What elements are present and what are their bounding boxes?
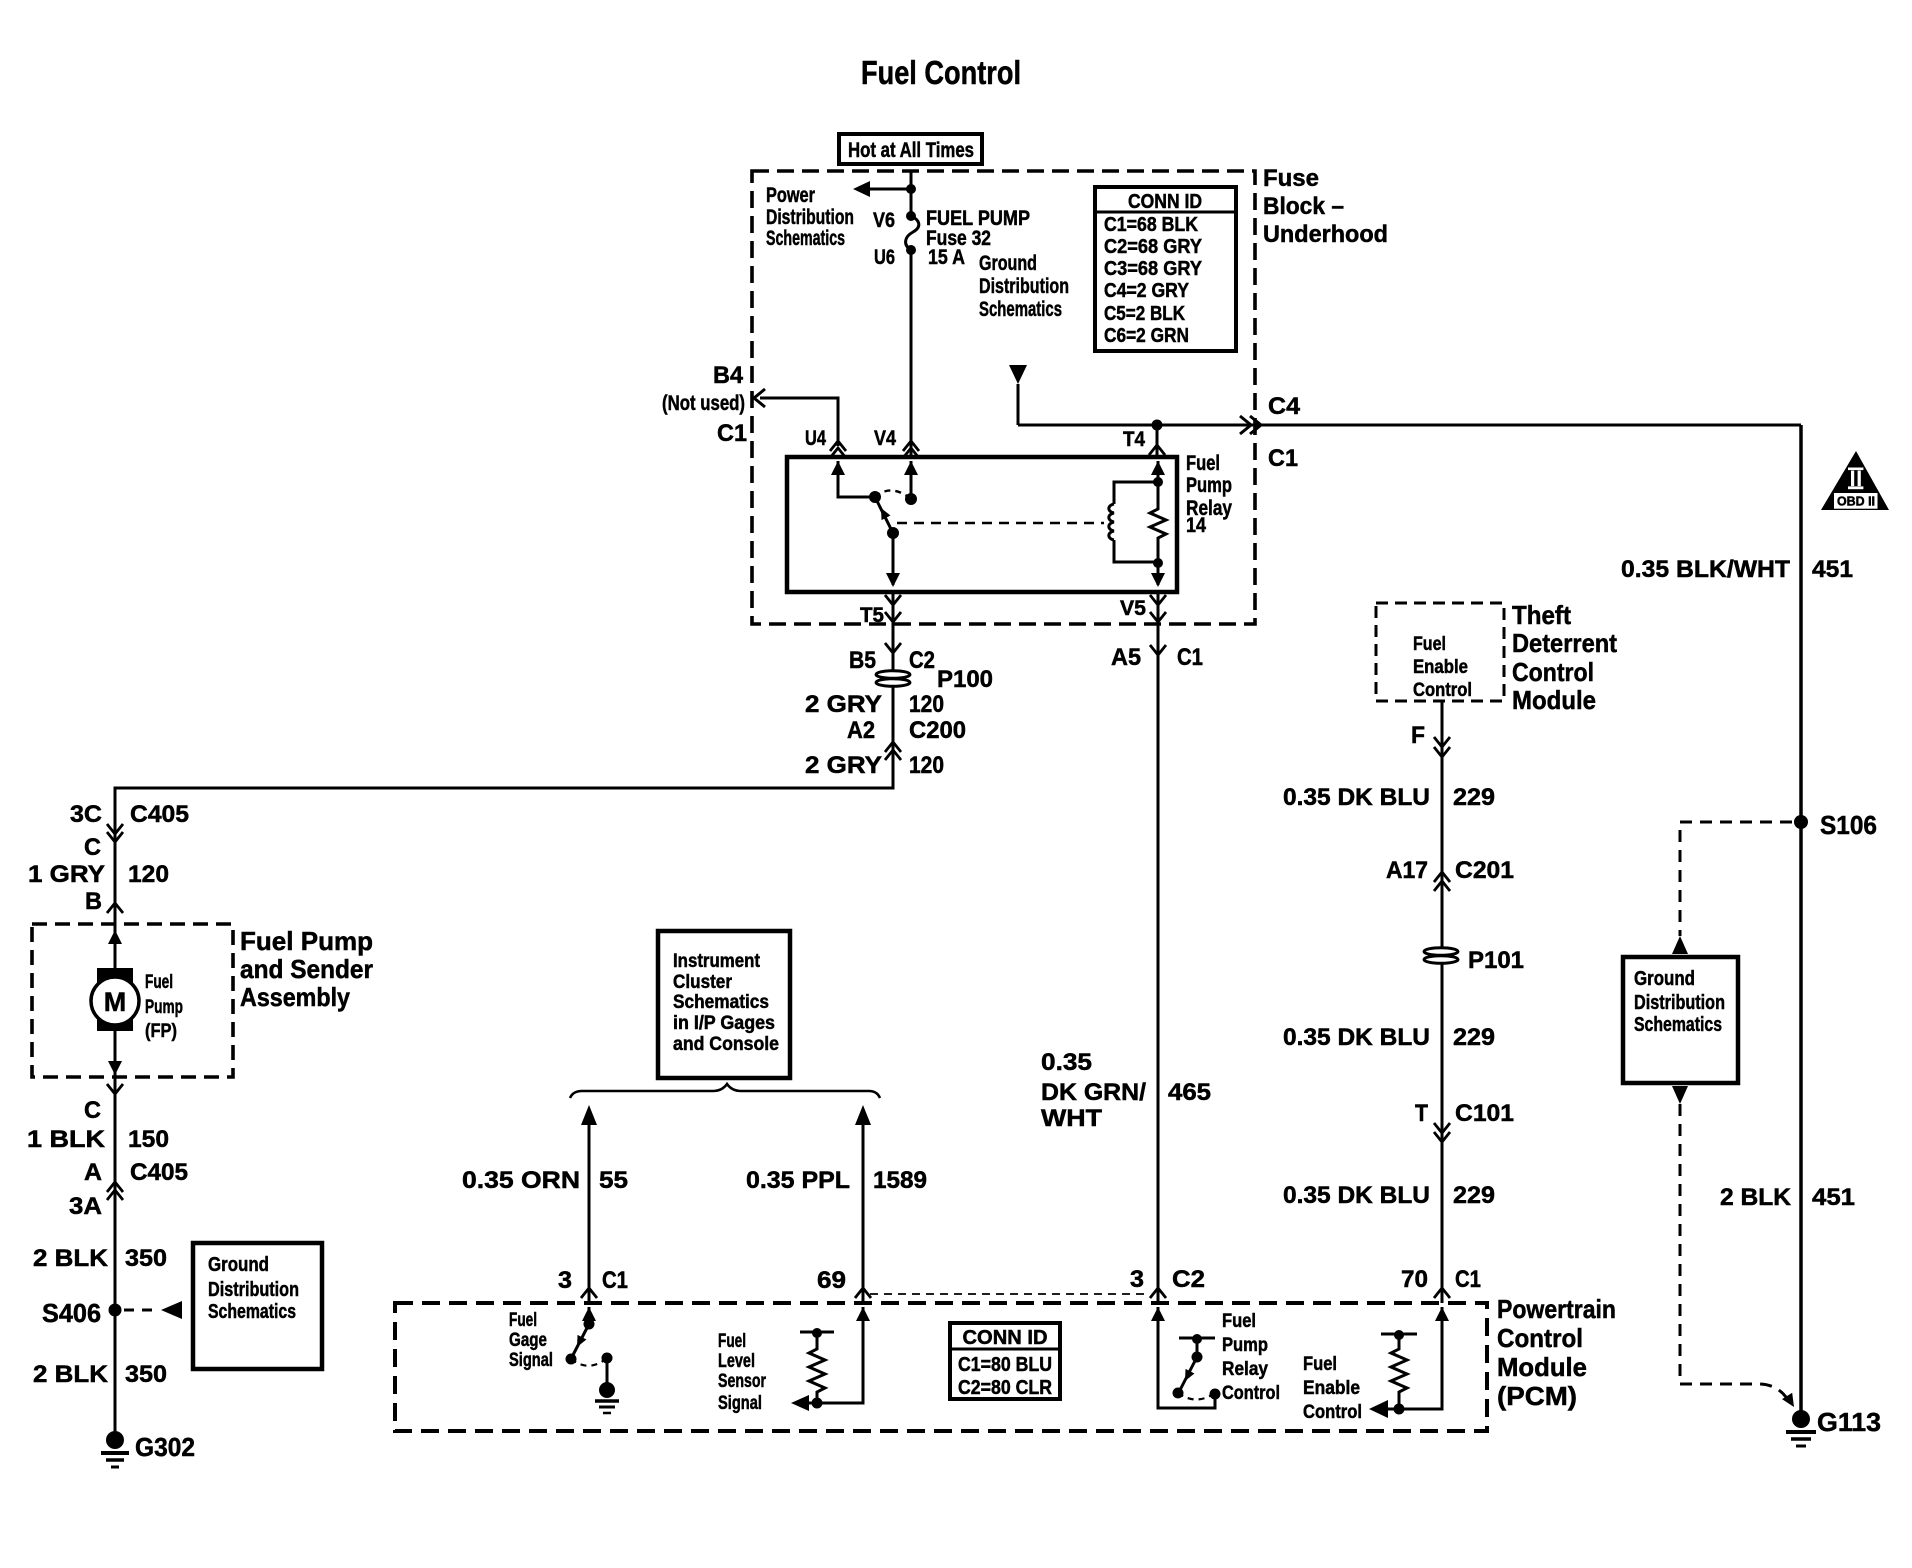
svg-text:Control: Control xyxy=(1413,680,1472,701)
connector arrow B4 xyxy=(754,389,765,407)
svg-text:0.35 DK BLU: 0.35 DK BLU xyxy=(1283,1182,1430,1209)
brace under instrument cluster box xyxy=(570,1084,880,1098)
svg-text:C6=2 GRN: C6=2 GRN xyxy=(1104,325,1189,347)
wire theft deterrent to PCM xyxy=(1441,701,1444,1303)
wire A5 to PCM fuel pump relay control xyxy=(1157,624,1160,1303)
svg-text:C4=2 GRY: C4=2 GRY xyxy=(1104,280,1190,302)
ground distribution schematics reference box left xyxy=(193,1243,322,1369)
svg-text:Control: Control xyxy=(1303,1402,1362,1423)
svg-text:A: A xyxy=(84,1159,102,1186)
svg-text:CONN ID: CONN ID xyxy=(1128,191,1202,213)
label Fuel Pump and Sender Assembly xyxy=(240,926,373,1012)
ground distribution schematics reference box right xyxy=(1623,957,1738,1083)
svg-text:Theft: Theft xyxy=(1512,600,1571,630)
grommet P100 xyxy=(876,666,993,693)
theft deterrent fuel enable dashed box xyxy=(1376,603,1504,701)
svg-text:C3=68 GRY: C3=68 GRY xyxy=(1104,258,1203,280)
svg-text:Pump: Pump xyxy=(1186,474,1232,497)
svg-text:C405: C405 xyxy=(130,801,189,828)
svg-text:C101: C101 xyxy=(1455,1100,1514,1127)
svg-text:Pump: Pump xyxy=(145,997,183,1018)
svg-text:3C: 3C xyxy=(70,801,102,828)
svg-text:465: 465 xyxy=(1168,1079,1211,1106)
svg-text:Module: Module xyxy=(1512,685,1596,715)
svg-text:Distribution: Distribution xyxy=(208,1279,299,1301)
wire into pump xyxy=(114,924,117,968)
thin dashed connector split line xyxy=(870,1293,1149,1295)
svg-text:Fuse: Fuse xyxy=(1263,165,1319,192)
svg-text:Control: Control xyxy=(1512,657,1594,687)
svg-text:P101: P101 xyxy=(1468,947,1524,974)
svg-text:B4: B4 xyxy=(713,362,744,389)
splice S106 xyxy=(1794,815,1808,829)
pin chevrons U4 V4 T4 xyxy=(830,441,846,451)
svg-text:Cluster: Cluster xyxy=(673,972,733,993)
svg-text:Underhood: Underhood xyxy=(1263,221,1388,248)
svg-text:C2=68 GRY: C2=68 GRY xyxy=(1104,236,1203,258)
svg-text:Distribution: Distribution xyxy=(1634,992,1725,1014)
svg-text:1 BLK: 1 BLK xyxy=(27,1126,106,1153)
svg-text:A17: A17 xyxy=(1386,857,1428,884)
relay coil xyxy=(1109,482,1158,562)
svg-text:S106: S106 xyxy=(1820,810,1877,840)
svg-text:Powertrain: Powertrain xyxy=(1497,1294,1616,1324)
svg-text:V5: V5 xyxy=(1120,597,1146,620)
svg-text:Deterrent: Deterrent xyxy=(1512,628,1617,658)
svg-text:Module: Module xyxy=(1497,1352,1587,1382)
svg-text:G113: G113 xyxy=(1817,1407,1881,1437)
fuel pump motor FP xyxy=(91,968,183,1042)
svg-text:451: 451 xyxy=(1812,1184,1855,1211)
svg-text:Fuel: Fuel xyxy=(1186,452,1220,475)
relay contact 87a wire from U4 xyxy=(838,461,875,497)
svg-text:Hot at All Times: Hot at All Times xyxy=(848,139,974,162)
svg-text:CONN ID: CONN ID xyxy=(963,1327,1048,1349)
svg-text:B5: B5 xyxy=(849,647,876,674)
svg-text:Fuel: Fuel xyxy=(145,972,173,993)
connector chevrons T5 V5 xyxy=(885,595,901,605)
node T4 junction xyxy=(1152,420,1163,431)
svg-text:350: 350 xyxy=(125,1245,167,1272)
svg-text:229: 229 xyxy=(1453,1024,1495,1051)
svg-text:S406: S406 xyxy=(42,1298,101,1328)
label B4 (Not used) C1 xyxy=(662,362,747,447)
svg-text:2 BLK: 2 BLK xyxy=(1720,1184,1792,1211)
connector chevrons C4 crossing xyxy=(1240,416,1251,434)
fuse value label xyxy=(926,207,1030,269)
svg-text:T4: T4 xyxy=(1123,428,1145,451)
svg-text:C2: C2 xyxy=(1172,1266,1205,1293)
svg-text:0.35 ORN: 0.35 ORN xyxy=(462,1167,580,1194)
svg-text:150: 150 xyxy=(128,1126,169,1153)
svg-text:0.35 DK BLU: 0.35 DK BLU xyxy=(1283,1024,1430,1051)
hot at all times label box xyxy=(839,134,982,164)
svg-text:C2=80 CLR: C2=80 CLR xyxy=(958,1377,1052,1399)
wire to power distribution arrow xyxy=(861,188,911,191)
fuse block underhood dashed box xyxy=(752,171,1255,624)
svg-text:55: 55 xyxy=(599,1167,628,1194)
dashed reference wire from S106 xyxy=(1680,822,1792,936)
svg-text:Fuel: Fuel xyxy=(1413,634,1446,655)
svg-text:C1: C1 xyxy=(1177,644,1203,671)
svg-text:Schematics: Schematics xyxy=(766,227,845,250)
relay common output wire xyxy=(892,533,895,585)
svg-text:G302: G302 xyxy=(135,1432,195,1462)
CONN ID table box PCM xyxy=(950,1323,1060,1399)
instrument cluster reference box xyxy=(658,931,790,1078)
label Powertrain Control Module (PCM) xyxy=(1497,1294,1616,1411)
svg-text:69: 69 xyxy=(817,1267,846,1294)
svg-text:Signal: Signal xyxy=(718,1393,762,1414)
svg-text:Schematics: Schematics xyxy=(208,1301,296,1323)
svg-text:C1=68 BLK: C1=68 BLK xyxy=(1104,214,1198,236)
svg-text:120: 120 xyxy=(909,691,944,718)
svg-text:WHT: WHT xyxy=(1041,1105,1102,1132)
label Power Distribution Schematics xyxy=(766,184,854,250)
svg-text:Relay: Relay xyxy=(1222,1359,1268,1380)
svg-text:Distribution: Distribution xyxy=(766,206,854,229)
wire 120 GRY from T5 down to fuel pump feed xyxy=(115,624,893,924)
svg-text:C201: C201 xyxy=(1455,857,1514,884)
svg-text:14: 14 xyxy=(1186,514,1206,537)
svg-text:0.35 PPL: 0.35 PPL xyxy=(746,1167,850,1194)
svg-text:B: B xyxy=(85,888,102,915)
svg-text:Schematics: Schematics xyxy=(979,298,1062,321)
svg-text:1589: 1589 xyxy=(873,1167,927,1194)
svg-text:229: 229 xyxy=(1453,784,1495,811)
relay switch contacts xyxy=(869,491,881,503)
svg-text:(Not used): (Not used) xyxy=(662,392,745,415)
svg-text:Enable: Enable xyxy=(1303,1378,1360,1399)
label Ground Distribution Schematics xyxy=(979,252,1069,321)
arrow into ground distribution box xyxy=(1672,936,1688,954)
svg-text:Fuel: Fuel xyxy=(718,1331,746,1352)
svg-text:Schematics: Schematics xyxy=(1634,1014,1722,1036)
svg-text:and Console: and Console xyxy=(673,1034,779,1055)
grommet P101 xyxy=(1424,947,1524,974)
svg-text:Ground: Ground xyxy=(208,1254,269,1276)
node junction on feed wire xyxy=(906,184,916,194)
svg-text:DK GRN/: DK GRN/ xyxy=(1041,1079,1146,1106)
svg-text:C2: C2 xyxy=(909,647,935,674)
svg-text:Assembly: Assembly xyxy=(240,982,350,1012)
svg-text:229: 229 xyxy=(1453,1182,1495,1209)
svg-text:V4: V4 xyxy=(874,427,896,450)
label Fuel Pump Relay 14 xyxy=(1186,452,1232,537)
svg-text:C: C xyxy=(84,834,101,861)
svg-text:A5: A5 xyxy=(1111,644,1141,671)
fuel enable control input resistor xyxy=(1369,1307,1449,1418)
relay actuation dashed link xyxy=(897,522,1104,525)
svg-text:2 BLK: 2 BLK xyxy=(33,1361,109,1388)
svg-text:A2: A2 xyxy=(847,717,875,744)
svg-text:Block –: Block – xyxy=(1263,193,1344,220)
powertrain control module dashed box xyxy=(395,1303,1487,1431)
svg-text:U6: U6 xyxy=(874,246,895,269)
svg-text:Enable: Enable xyxy=(1413,657,1468,678)
svg-text:2 GRY: 2 GRY xyxy=(805,691,882,718)
wire out of pump xyxy=(114,1031,117,1077)
label Fuel Gage Signal xyxy=(509,1310,553,1371)
wire fuse to V4 relay input xyxy=(910,250,913,457)
svg-text:C1: C1 xyxy=(717,420,747,447)
svg-text:C: C xyxy=(84,1097,101,1124)
svg-text:T5: T5 xyxy=(860,604,884,627)
svg-text:0.35: 0.35 xyxy=(1041,1049,1092,1076)
svg-text:3A: 3A xyxy=(69,1193,102,1220)
wire T5 out of relay xyxy=(892,592,895,624)
svg-text:Fuel Control: Fuel Control xyxy=(861,54,1021,91)
svg-text:(FP): (FP) xyxy=(145,1021,177,1042)
wire label 0.35 DK GRN/WHT 465 xyxy=(1041,1049,1211,1132)
wire from hot feed down to fuse xyxy=(910,171,913,216)
ground G113 xyxy=(1786,1407,1881,1446)
fuse FUEL PUMP Fuse 32 15A symbol xyxy=(906,211,919,255)
svg-text:0.35 BLK/WHT: 0.35 BLK/WHT xyxy=(1621,556,1790,583)
wire fuel gage signal to cluster xyxy=(588,1110,591,1303)
svg-text:(PCM): (PCM) xyxy=(1497,1381,1577,1411)
wire fuel level sensor signal to cluster xyxy=(862,1110,865,1303)
svg-text:C405: C405 xyxy=(130,1159,188,1186)
wire antenna down to C4 feed xyxy=(1017,384,1020,425)
svg-text:U4: U4 xyxy=(805,427,826,450)
label Fuel Enable Control PCM xyxy=(1303,1354,1362,1423)
relay contact 30 wire from V4 xyxy=(910,461,913,499)
fuel pump relay control driver switch xyxy=(1151,1307,1221,1408)
svg-text:Gage: Gage xyxy=(509,1330,547,1351)
svg-text:C5=2 BLK: C5=2 BLK xyxy=(1104,303,1185,325)
svg-text:C1: C1 xyxy=(1268,445,1298,472)
svg-text:350: 350 xyxy=(125,1361,167,1388)
wire T4 down into relay xyxy=(1156,425,1159,457)
wire T4 feed across to C4 xyxy=(1018,424,1801,427)
svg-text:Instrument: Instrument xyxy=(673,951,761,972)
fuel pump and sender assembly dashed box xyxy=(32,924,233,1077)
label Fuel Level Sensor Signal xyxy=(718,1331,766,1414)
svg-text:1 GRY: 1 GRY xyxy=(28,861,105,888)
svg-text:Distribution: Distribution xyxy=(979,275,1069,298)
wire B4 not used stub xyxy=(760,398,838,446)
svg-text:Control: Control xyxy=(1497,1323,1583,1353)
svg-text:451: 451 xyxy=(1812,556,1853,583)
svg-text:C1: C1 xyxy=(602,1267,628,1294)
fuel pump relay 14 box xyxy=(787,457,1177,592)
svg-text:Fuel Pump: Fuel Pump xyxy=(240,926,373,956)
svg-text:2 GRY: 2 GRY xyxy=(805,752,882,779)
wire pump ground to G302 xyxy=(114,1077,117,1431)
svg-text:P100: P100 xyxy=(937,666,993,693)
wire V5 out of relay xyxy=(1157,592,1160,624)
svg-text:C1=80 BLU: C1=80 BLU xyxy=(958,1354,1052,1376)
svg-text:Schematics: Schematics xyxy=(673,992,769,1013)
CONN ID table box xyxy=(1095,187,1236,351)
label Fuel Pump Relay Control xyxy=(1222,1311,1280,1404)
svg-text:120: 120 xyxy=(909,752,944,779)
svg-text:T: T xyxy=(1415,1100,1428,1127)
svg-text:120: 120 xyxy=(128,861,169,888)
label Fuse Block - Underhood xyxy=(1263,165,1388,248)
svg-text:Pump: Pump xyxy=(1222,1335,1268,1356)
svg-text:V6: V6 xyxy=(873,209,895,232)
fuel level sensor input resistor xyxy=(791,1307,870,1411)
svg-text:Fuel: Fuel xyxy=(509,1310,537,1331)
svg-text:Fuel: Fuel xyxy=(1222,1311,1256,1332)
svg-text:Ground: Ground xyxy=(979,252,1037,275)
label Theft Deterrent Control Module xyxy=(1512,600,1617,715)
svg-text:3: 3 xyxy=(558,1267,572,1294)
ground G302 xyxy=(101,1431,195,1467)
OBD II symbol xyxy=(1821,451,1889,510)
dashed reference wire to G113 xyxy=(1680,1104,1788,1400)
svg-text:C1: C1 xyxy=(1455,1266,1481,1293)
svg-text:70: 70 xyxy=(1401,1266,1428,1293)
svg-text:Fuel: Fuel xyxy=(1303,1354,1337,1375)
svg-text:2 BLK: 2 BLK xyxy=(33,1245,109,1272)
svg-text:in I/P Gages: in I/P Gages xyxy=(673,1013,775,1034)
splice S406 xyxy=(42,1298,182,1328)
fuel gage signal switch xyxy=(566,1307,620,1413)
arrow out of ground distribution box xyxy=(1672,1086,1688,1104)
svg-text:Sensor: Sensor xyxy=(718,1371,766,1392)
svg-text:C4: C4 xyxy=(1268,393,1301,420)
arrow to power distribution schematics xyxy=(853,181,870,197)
wire C4 feed down right side to G113 xyxy=(1799,425,1803,1413)
relay switch arm xyxy=(875,497,893,533)
svg-text:F: F xyxy=(1411,722,1425,749)
svg-text:and Sender: and Sender xyxy=(240,954,373,984)
svg-text:3: 3 xyxy=(1130,1266,1144,1293)
svg-text:Control: Control xyxy=(1222,1383,1280,1404)
svg-text:C200: C200 xyxy=(909,717,966,744)
svg-text:15 A: 15 A xyxy=(928,246,965,269)
svg-text:0.35 DK BLU: 0.35 DK BLU xyxy=(1283,784,1430,811)
svg-text:Ground: Ground xyxy=(1634,968,1695,990)
svg-text:M: M xyxy=(104,987,127,1017)
relay switch alternate position dashed arc xyxy=(875,490,911,499)
antenna feed symbol xyxy=(1009,365,1027,384)
svg-text:Level: Level xyxy=(718,1351,755,1372)
svg-text:Power: Power xyxy=(766,184,815,207)
svg-text:OBD II: OBD II xyxy=(1837,495,1875,509)
relay suppression resistor xyxy=(1150,461,1166,585)
pin label C below pump xyxy=(107,1084,123,1094)
svg-text:Signal: Signal xyxy=(509,1350,553,1371)
